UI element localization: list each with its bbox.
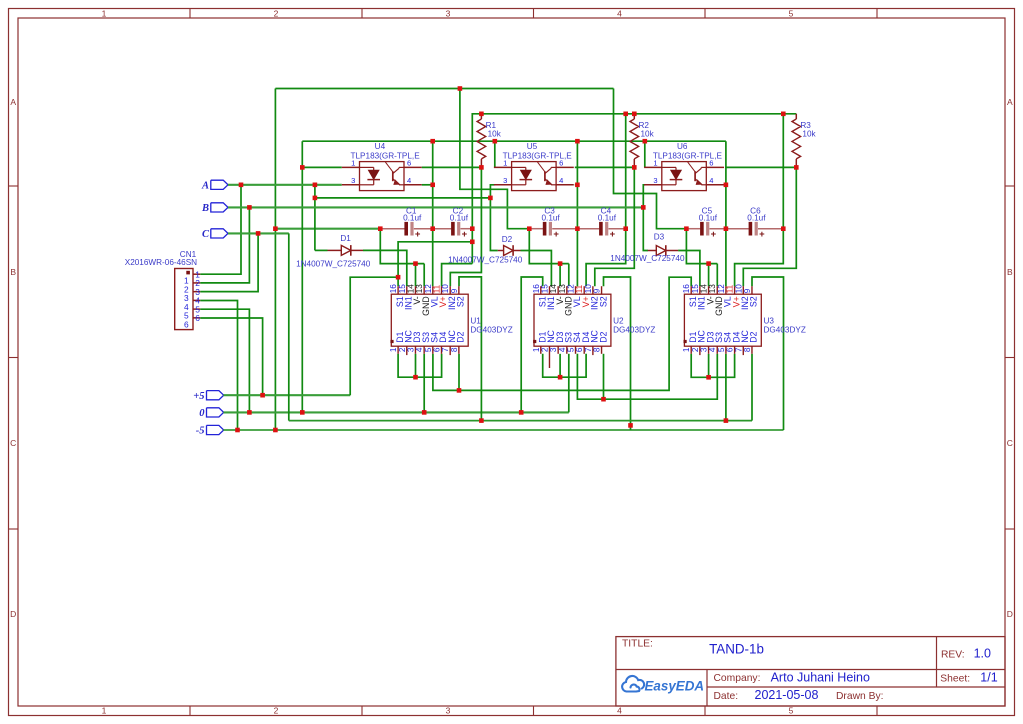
wire U3 pin13 drop xyxy=(716,264,718,287)
wire B to U6 pin3 xyxy=(643,185,645,208)
svg-text:C: C xyxy=(10,438,16,448)
svg-text:B: B xyxy=(10,267,16,277)
wire U1 pin8 drop xyxy=(458,354,460,391)
svg-text:0: 0 xyxy=(199,408,205,419)
svg-text:4: 4 xyxy=(709,176,713,185)
wire D3 to U3 pin15 xyxy=(678,251,700,287)
svg-text:15: 15 xyxy=(540,284,549,294)
svg-text:14: 14 xyxy=(549,284,558,294)
wire U3 D-jumper xyxy=(691,354,734,378)
svg-text:5: 5 xyxy=(424,347,433,352)
wire R2 to U2 pin10 xyxy=(595,167,635,286)
svg-text:11: 11 xyxy=(433,284,442,293)
svg-text:1N4007W_C725740: 1N4007W_C725740 xyxy=(448,256,523,265)
wire gnd top bus xyxy=(302,140,726,142)
svg-text:4: 4 xyxy=(617,9,622,19)
svg-text:8: 8 xyxy=(743,347,752,352)
svg-text:D: D xyxy=(1007,609,1013,619)
svg-text:3: 3 xyxy=(653,176,657,185)
svg-text:1: 1 xyxy=(102,706,107,716)
svg-text:4: 4 xyxy=(415,347,424,352)
svg-text:C: C xyxy=(202,229,210,240)
svg-text:0.1uf: 0.1uf xyxy=(699,213,718,222)
svg-text:14: 14 xyxy=(700,284,709,294)
svg-text:1: 1 xyxy=(682,347,691,352)
wire U1 pin16 drop xyxy=(397,277,399,286)
wire U2 D-jumper xyxy=(543,354,586,377)
wire U2 S4 D2 to U3 S3 xyxy=(577,354,717,399)
wire 0 rail xyxy=(223,411,568,413)
wire C1 left to U1 V- GND xyxy=(380,229,424,264)
wire U2 pin16 to 0 xyxy=(521,277,543,412)
wire +5 riser to U1 S1 xyxy=(350,277,398,395)
wire U1 pin3 drop xyxy=(415,354,417,377)
diode D3 1N4007W xyxy=(648,250,657,252)
wire +5 to resistor bus xyxy=(472,114,796,229)
svg-text:D2: D2 xyxy=(598,331,608,342)
resistor R3 10k xyxy=(795,114,797,119)
capacitor C5 0.1uf xyxy=(686,228,700,230)
optocoupler U4 TLP183 xyxy=(360,162,405,191)
svg-text:0.1uf: 0.1uf xyxy=(450,213,469,222)
svg-text:3: 3 xyxy=(406,347,415,352)
svg-text:C: C xyxy=(1007,438,1013,448)
wire A to CN1 pin1 xyxy=(200,185,241,274)
svg-text:2: 2 xyxy=(398,347,407,352)
svg-text:D2: D2 xyxy=(456,331,466,342)
svg-text:TLP183(GR-TPL,E: TLP183(GR-TPL,E xyxy=(351,151,421,160)
svg-text:-5: -5 xyxy=(196,426,205,437)
wire C5 left to U3 V- GND xyxy=(686,229,717,264)
wire C6 right riser xyxy=(782,114,784,229)
wire U1 pin14 drop xyxy=(415,264,417,287)
wire CN1 pin5 to 0 xyxy=(200,309,249,412)
wire +5 rail xyxy=(223,394,350,396)
optocoupler U5 TLP183 xyxy=(512,162,556,191)
svg-text:4: 4 xyxy=(407,176,411,185)
optocoupler U6 TLP183 xyxy=(662,162,707,191)
svg-text:10k: 10k xyxy=(488,130,502,139)
wire D2 to U2 pin15 xyxy=(521,251,552,287)
svg-text:Sheet:: Sheet: xyxy=(940,674,970,685)
ruler tick marks xyxy=(189,9,191,19)
svg-text:D2: D2 xyxy=(749,331,759,342)
wire A line xyxy=(228,184,342,186)
analog switch U2 DG403DYZ xyxy=(534,294,611,346)
svg-text:15: 15 xyxy=(398,284,407,294)
svg-text:11: 11 xyxy=(726,284,735,293)
wire C riser down xyxy=(288,233,290,420)
svg-text:TLP183(GR-TPL,E: TLP183(GR-TPL,E xyxy=(653,151,723,160)
svg-text:6: 6 xyxy=(433,347,442,352)
svg-text:7: 7 xyxy=(441,347,450,352)
svg-text:TITLE:: TITLE: xyxy=(622,639,653,650)
wire R1 to U1 pin10 xyxy=(450,167,481,286)
svg-text:8: 8 xyxy=(450,347,459,352)
diode D1 1N4007W xyxy=(328,249,342,251)
wire U4 pin6 to R1 xyxy=(422,166,482,168)
svg-text:+5: +5 xyxy=(193,391,204,402)
wire U1 pin13 drop xyxy=(423,264,425,287)
svg-text:9: 9 xyxy=(593,288,602,293)
svg-text:2: 2 xyxy=(691,347,700,352)
resistor R1 10k xyxy=(480,114,482,119)
wire C to CN1 pin3 xyxy=(200,233,258,291)
capacitor C1 0.1uf xyxy=(380,228,404,230)
wire -5 ch2 drop xyxy=(460,89,529,229)
title block frame xyxy=(616,637,1005,706)
svg-text:+: + xyxy=(711,229,717,240)
svg-text:A: A xyxy=(201,180,209,191)
svg-text:U1: U1 xyxy=(470,317,481,326)
svg-text:6: 6 xyxy=(726,347,735,352)
svg-text:13: 13 xyxy=(415,284,424,294)
svg-text:+: + xyxy=(553,229,559,240)
wire -5 ch3 drop xyxy=(614,89,687,229)
svg-text:S2: S2 xyxy=(749,296,759,307)
wire C4 right riser xyxy=(625,114,627,229)
svg-text:U5: U5 xyxy=(527,142,538,151)
svg-text:S2: S2 xyxy=(598,296,608,307)
wire 0 riser xyxy=(301,141,303,412)
wire U6 pin6 to R3 xyxy=(725,166,796,168)
svg-text:+: + xyxy=(759,229,765,240)
wire C2 right to U1 pin11 xyxy=(442,264,473,287)
resistor R2 10k xyxy=(633,114,635,119)
svg-text:5: 5 xyxy=(789,706,794,716)
wire -5 top bus xyxy=(275,88,613,90)
svg-text:4: 4 xyxy=(617,706,622,716)
svg-text:3: 3 xyxy=(503,176,507,185)
diode D2 1N4007W xyxy=(498,250,504,252)
wire U4 pin4 stub xyxy=(422,184,433,186)
wire R3 to U3 pin10 xyxy=(743,167,796,286)
net flag C xyxy=(211,229,228,238)
connector CN1 X2016WR-06-46SN xyxy=(175,269,193,330)
wire C2 right riser xyxy=(471,229,473,264)
wire U3 pin5 to C rail xyxy=(725,354,727,421)
svg-text:0.1uf: 0.1uf xyxy=(403,213,422,222)
wire U3 pin14 drop xyxy=(708,264,710,287)
svg-text:REV:: REV: xyxy=(941,650,965,661)
wire CN1 pin4 to -5 xyxy=(200,301,237,431)
capacitor C4 0.1uf xyxy=(577,228,599,230)
svg-text:7: 7 xyxy=(734,347,743,352)
wire U3 pin3 drop xyxy=(708,354,710,378)
wire gnd drop ch3 xyxy=(725,141,727,286)
svg-text:14: 14 xyxy=(406,284,415,294)
svg-text:3: 3 xyxy=(446,9,451,19)
svg-text:2021-05-08: 2021-05-08 xyxy=(755,688,819,702)
svg-text:Arto Juhani Heino: Arto Juhani Heino xyxy=(771,671,870,685)
svg-text:16: 16 xyxy=(682,284,691,294)
svg-text:6: 6 xyxy=(575,347,584,352)
svg-text:0.1uf: 0.1uf xyxy=(747,213,766,222)
wire CN1 pin6 to +5 xyxy=(200,318,262,395)
svg-text:15: 15 xyxy=(691,284,700,294)
capacitor C3 0.1uf xyxy=(529,228,543,230)
svg-text:4: 4 xyxy=(708,347,717,352)
wire U1 S4 D2 to U3 S1 xyxy=(433,277,691,390)
svg-text:13: 13 xyxy=(558,284,567,294)
svg-text:2: 2 xyxy=(540,347,549,352)
svg-text:0.1uf: 0.1uf xyxy=(598,213,617,222)
wire gnd drop ch2 xyxy=(576,141,578,286)
wire U2 pin14 drop xyxy=(559,264,561,287)
svg-text:TAND-1b: TAND-1b xyxy=(709,641,764,656)
svg-text:12: 12 xyxy=(717,284,726,294)
wire -5 left riser xyxy=(274,89,276,431)
svg-text:6: 6 xyxy=(184,319,189,329)
svg-text:4: 4 xyxy=(559,176,563,185)
wire C line xyxy=(228,232,289,234)
svg-text:12: 12 xyxy=(424,284,433,294)
net flag -5 xyxy=(207,425,224,434)
svg-text:10k: 10k xyxy=(802,130,816,139)
svg-text:5: 5 xyxy=(789,9,794,19)
junction dots xyxy=(458,86,463,91)
wire U2 pin4 to 0 xyxy=(568,354,570,413)
wire U2 pin13 drop xyxy=(568,264,570,287)
svg-text:TLP183(GR-TPL,E: TLP183(GR-TPL,E xyxy=(503,151,573,160)
wire B line xyxy=(228,206,643,208)
wire U2 pin3 drop xyxy=(559,354,561,377)
wire C to U3 pin8 xyxy=(751,354,753,421)
svg-text:DG403DYZ: DG403DYZ xyxy=(764,325,806,334)
wire gnd drop ch1 xyxy=(432,141,434,286)
wire B to D3 anode xyxy=(643,207,648,250)
EasyEDA logo xyxy=(622,676,644,692)
svg-text:9: 9 xyxy=(450,288,459,293)
svg-text:B: B xyxy=(1007,267,1013,277)
wire A to U5 pin3 xyxy=(490,185,494,198)
svg-text:1N4007W_C725740: 1N4007W_C725740 xyxy=(610,254,685,263)
svg-text:U6: U6 xyxy=(677,142,688,151)
wire B to CN1 pin2 xyxy=(200,207,249,283)
svg-text:D1: D1 xyxy=(340,234,351,243)
svg-text:DG403DYZ: DG403DYZ xyxy=(613,325,655,334)
analog switch U3 DG403DYZ xyxy=(684,294,761,346)
svg-text:B: B xyxy=(201,203,209,214)
capacitor C2 0.1uf xyxy=(433,228,452,230)
wire U5 pin4 stub xyxy=(575,184,578,186)
svg-text:10: 10 xyxy=(584,284,593,294)
wire C6 right to U3 pin11 xyxy=(735,229,784,287)
wire C3 left to U2 V- GND xyxy=(529,229,569,264)
svg-text:D2: D2 xyxy=(502,235,513,244)
svg-text:1: 1 xyxy=(532,347,541,352)
svg-text:+: + xyxy=(610,229,616,240)
wire cap row ch1 left xyxy=(275,228,380,230)
svg-text:D3: D3 xyxy=(654,233,665,242)
svg-text:3: 3 xyxy=(549,347,558,352)
wire U1 S1 to C2 right xyxy=(398,242,472,277)
wire U2 pin8 drop xyxy=(603,354,605,399)
wire U5 pin1 riser xyxy=(494,141,496,167)
svg-text:1/1: 1/1 xyxy=(980,671,997,685)
svg-text:U2: U2 xyxy=(613,317,624,326)
svg-text:16: 16 xyxy=(532,284,541,294)
wire U5 pin6 to R2 xyxy=(575,166,635,168)
svg-text:Date:: Date: xyxy=(714,691,739,702)
wire U1 pin9 over xyxy=(459,277,481,421)
svg-text:1: 1 xyxy=(102,9,107,19)
svg-text:2: 2 xyxy=(274,706,279,716)
net flag 0 xyxy=(207,408,224,417)
svg-text:12: 12 xyxy=(567,284,576,294)
svg-text:3: 3 xyxy=(351,176,355,185)
svg-text:EasyEDA: EasyEDA xyxy=(645,678,705,693)
svg-text:U4: U4 xyxy=(375,142,386,151)
net flag A xyxy=(211,180,228,189)
wire D1 anode stub xyxy=(315,249,328,251)
svg-text:13: 13 xyxy=(708,284,717,294)
wire C rail xyxy=(289,420,752,422)
capacitor C6 0.1uf xyxy=(726,228,749,230)
svg-text:6: 6 xyxy=(195,313,200,323)
svg-text:Drawn By:: Drawn By: xyxy=(836,691,884,702)
svg-text:1: 1 xyxy=(389,347,398,352)
wire C4 right to U2 pin11 xyxy=(586,229,626,287)
svg-text:+: + xyxy=(462,229,468,240)
svg-text:S2: S2 xyxy=(456,296,466,307)
svg-text:Company:: Company: xyxy=(714,673,761,684)
svg-text:5: 5 xyxy=(567,347,576,352)
analog switch U1 DG403DYZ xyxy=(391,294,468,346)
wire U4 pin1 branch xyxy=(302,166,342,168)
svg-text:A: A xyxy=(10,97,16,107)
wire U1 pin4 to 0 xyxy=(423,354,425,413)
net flag B xyxy=(211,203,228,212)
wire -5 rail xyxy=(223,429,783,431)
svg-text:3: 3 xyxy=(446,706,451,716)
wire A riser down xyxy=(314,185,316,251)
wire D1 to U1 pin15 xyxy=(363,250,407,286)
svg-text:10: 10 xyxy=(441,284,450,294)
svg-text:8: 8 xyxy=(593,347,602,352)
svg-text:4: 4 xyxy=(558,347,567,352)
wire U3 pin9 to -5 xyxy=(752,277,784,430)
svg-text:DG403DYZ: DG403DYZ xyxy=(470,325,512,334)
wire U2 pin9 to -5 xyxy=(604,277,631,430)
net flag +5 xyxy=(207,391,224,400)
svg-text:5: 5 xyxy=(717,347,726,352)
svg-text:U3: U3 xyxy=(764,317,775,326)
svg-text:16: 16 xyxy=(389,284,398,294)
svg-text:10k: 10k xyxy=(641,130,655,139)
svg-text:D: D xyxy=(10,609,16,619)
svg-text:11: 11 xyxy=(575,284,584,293)
svg-text:10: 10 xyxy=(734,284,743,294)
svg-text:A: A xyxy=(1007,97,1013,107)
wire U1 D-jumper xyxy=(398,354,442,377)
wire A cross line xyxy=(315,197,491,199)
wire U6 pin1 riser xyxy=(644,141,646,167)
wire A to D2 anode xyxy=(490,198,497,251)
svg-text:+: + xyxy=(415,229,421,240)
svg-text:1.0: 1.0 xyxy=(974,647,991,661)
svg-text:X2016WR-06-46SN: X2016WR-06-46SN xyxy=(125,258,197,267)
svg-text:7: 7 xyxy=(584,347,593,352)
svg-text:1N4007W_C725740: 1N4007W_C725740 xyxy=(296,259,371,268)
svg-text:3: 3 xyxy=(700,347,709,352)
svg-text:2: 2 xyxy=(274,9,279,19)
svg-text:9: 9 xyxy=(743,288,752,293)
svg-text:0.1uf: 0.1uf xyxy=(541,213,560,222)
